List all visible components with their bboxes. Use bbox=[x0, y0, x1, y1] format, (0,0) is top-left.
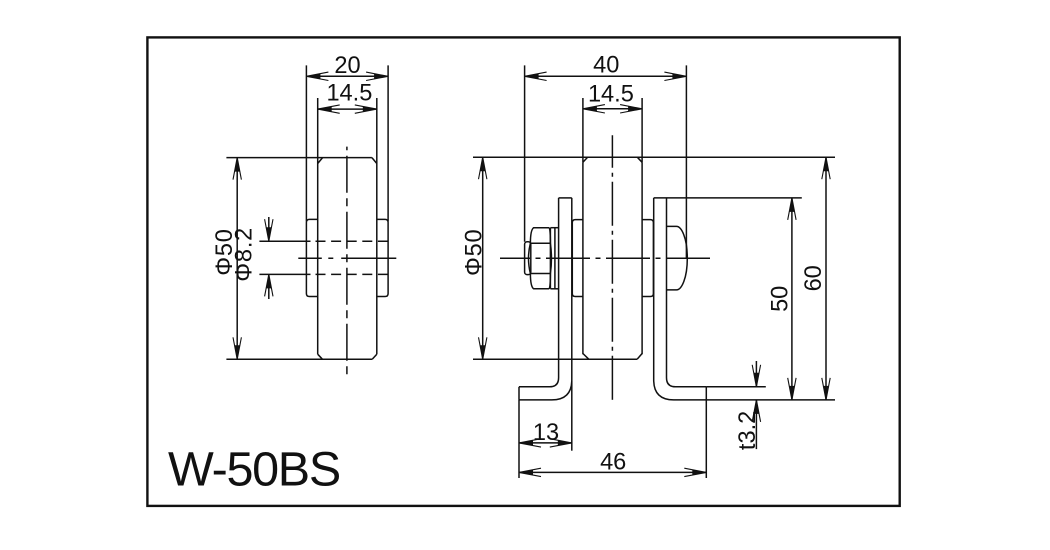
svg-text:W-50BS: W-50BS bbox=[168, 442, 340, 496]
svg-text:40: 40 bbox=[593, 52, 619, 78]
svg-text:46: 46 bbox=[600, 450, 626, 476]
svg-text:13: 13 bbox=[533, 420, 559, 446]
svg-text:Φ8.2: Φ8.2 bbox=[231, 227, 257, 282]
svg-text:14.5: 14.5 bbox=[588, 82, 634, 108]
svg-text:14.5: 14.5 bbox=[326, 80, 372, 106]
svg-text:Φ50: Φ50 bbox=[462, 229, 488, 276]
svg-text:50: 50 bbox=[767, 286, 793, 312]
svg-text:60: 60 bbox=[801, 265, 827, 291]
svg-text:20: 20 bbox=[334, 53, 360, 79]
svg-text:t3.2: t3.2 bbox=[735, 411, 761, 450]
